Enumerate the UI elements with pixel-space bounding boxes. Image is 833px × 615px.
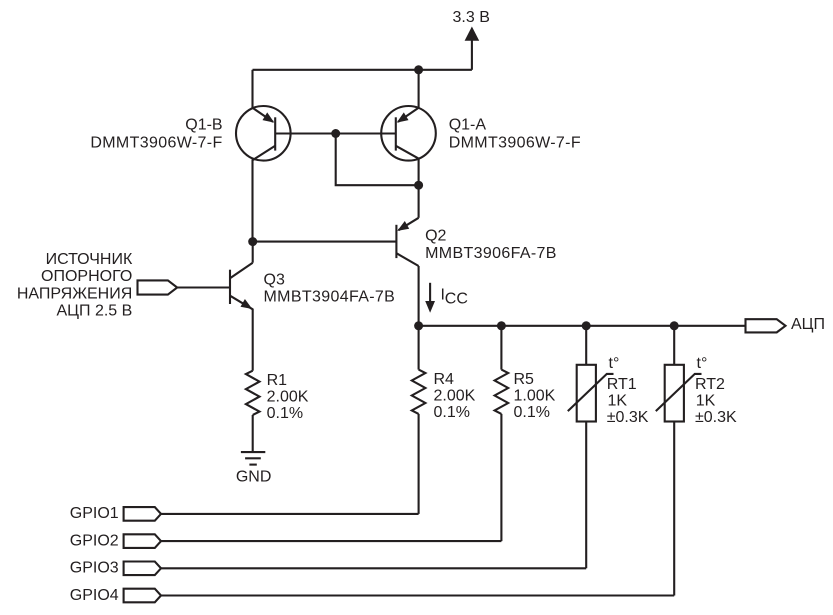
thermistor RT1 (568, 365, 614, 422)
svg-text:t°: t° (697, 355, 708, 372)
svg-text:MMBT3906FA-7B: MMBT3906FA-7B (425, 245, 557, 262)
svg-text:1K: 1K (608, 393, 628, 410)
wire base feedback (336, 134, 419, 186)
node bus R5 (497, 321, 506, 330)
svg-text:2.00K: 2.00K (434, 387, 476, 404)
svg-text:GND: GND (236, 468, 272, 485)
svg-text:3.3 В: 3.3 В (453, 9, 490, 26)
label Icc (441, 287, 468, 308)
svg-text:АЦП: АЦП (791, 316, 825, 333)
current arrow Icc (425, 283, 435, 313)
node collector junction (414, 181, 423, 190)
svg-text:2.00K: 2.00K (267, 388, 309, 405)
svg-text:1.00K: 1.00K (514, 387, 556, 404)
wire Q2 base (253, 241, 397, 243)
svg-text:MMBT3904FA-7B: MMBT3904FA-7B (264, 289, 396, 306)
wire Q1-B emitter (251, 70, 253, 109)
wire R1 to ground (252, 415, 254, 451)
node Q3 collector junction (248, 237, 257, 246)
node base junction (331, 129, 340, 138)
resistor R5 (495, 370, 509, 414)
transistor Q3 (230, 242, 253, 371)
wire RT1 bottom lead (585, 422, 587, 569)
svg-text:0.1%: 0.1% (267, 405, 303, 422)
svg-text:GPIO3: GPIO3 (70, 560, 119, 577)
svg-text:Q3: Q3 (264, 271, 285, 288)
svg-text:GPIO1: GPIO1 (70, 505, 119, 522)
wire R5 bottom lead (500, 414, 502, 541)
wire GPIO4 (161, 594, 674, 596)
svg-text:RT1: RT1 (607, 376, 637, 393)
svg-text:0.1%: 0.1% (434, 404, 470, 421)
wire Q3 base (177, 286, 230, 288)
svg-text:АЦП 2.5 В: АЦП 2.5 В (56, 303, 132, 320)
svg-text:±0.3K: ±0.3K (695, 409, 737, 426)
label RT1 (607, 355, 649, 426)
svg-text:Q1-B: Q1-B (185, 117, 222, 134)
wire R5 top lead (500, 326, 502, 370)
power 3.3V arrow (465, 27, 480, 41)
ground (241, 452, 265, 465)
thermistor RT2 (656, 365, 702, 422)
svg-text:R5: R5 (514, 371, 535, 388)
transistor Q2 (396, 185, 418, 326)
node bus R4 (414, 321, 423, 330)
node bus RT2 (670, 321, 679, 330)
connector GPIO3 (124, 562, 161, 576)
label R5 (514, 371, 556, 421)
wire GPIO3 (161, 567, 586, 569)
label ADC reference source (17, 251, 133, 320)
connector GPIO1 (124, 507, 161, 521)
wire R4 bottom lead (418, 414, 420, 514)
svg-text:ОПОРНОГО: ОПОРНОГО (41, 268, 132, 285)
connector GPIO4 (124, 589, 161, 603)
transistor Q1-A (381, 106, 436, 161)
wire output bus (419, 325, 746, 327)
svg-text:НАПРЯЖЕНИЯ: НАПРЯЖЕНИЯ (17, 285, 132, 302)
svg-text:t°: t° (609, 355, 620, 372)
svg-text:DMMT3906W-7-F: DMMT3906W-7-F (90, 134, 222, 151)
svg-text:1K: 1K (696, 393, 716, 410)
wire GPIO1 (161, 513, 419, 515)
wire 3.3V stem (471, 39, 473, 70)
wire Q1-B base (275, 132, 336, 134)
wire GPIO2 (161, 540, 501, 542)
wire RT2 bottom lead (673, 422, 675, 596)
svg-text:GPIO4: GPIO4 (70, 587, 119, 604)
resistor R4 (412, 370, 426, 414)
connector GPIO2 (124, 534, 161, 548)
svg-text:CC: CC (445, 290, 468, 307)
wire R4 top lead (418, 326, 420, 370)
label RT2 (695, 355, 737, 426)
svg-text:DMMT3906W-7-F: DMMT3906W-7-F (449, 134, 581, 151)
connector VREF input (138, 280, 178, 294)
svg-text:Q2: Q2 (425, 227, 446, 244)
wire Q1-B collector (251, 160, 253, 242)
wire RT2 top lead (673, 326, 675, 365)
svg-text:Q1-A: Q1-A (449, 117, 487, 134)
svg-text:R4: R4 (434, 371, 455, 388)
resistor R1 (246, 371, 260, 415)
wire Q1-A emitter (418, 70, 420, 109)
svg-text:ИСТОЧНИК: ИСТОЧНИК (46, 251, 133, 268)
wire RT1 top lead (585, 326, 587, 365)
label R1 (267, 372, 309, 422)
wire Q1-A collector (418, 158, 420, 185)
svg-text:RT2: RT2 (695, 376, 725, 393)
svg-text:0.1%: 0.1% (514, 404, 550, 421)
node bus RT1 (582, 321, 591, 330)
wire Q1-A base (336, 132, 396, 134)
svg-text:±0.3K: ±0.3K (607, 409, 649, 426)
wire top rail (253, 69, 472, 71)
svg-text:R1: R1 (267, 372, 288, 389)
transistor Q1-B (236, 106, 291, 161)
connector ADC output (746, 319, 786, 332)
label R4 (434, 371, 476, 421)
node top rail junction (414, 65, 423, 74)
svg-text:GPIO2: GPIO2 (70, 532, 119, 549)
